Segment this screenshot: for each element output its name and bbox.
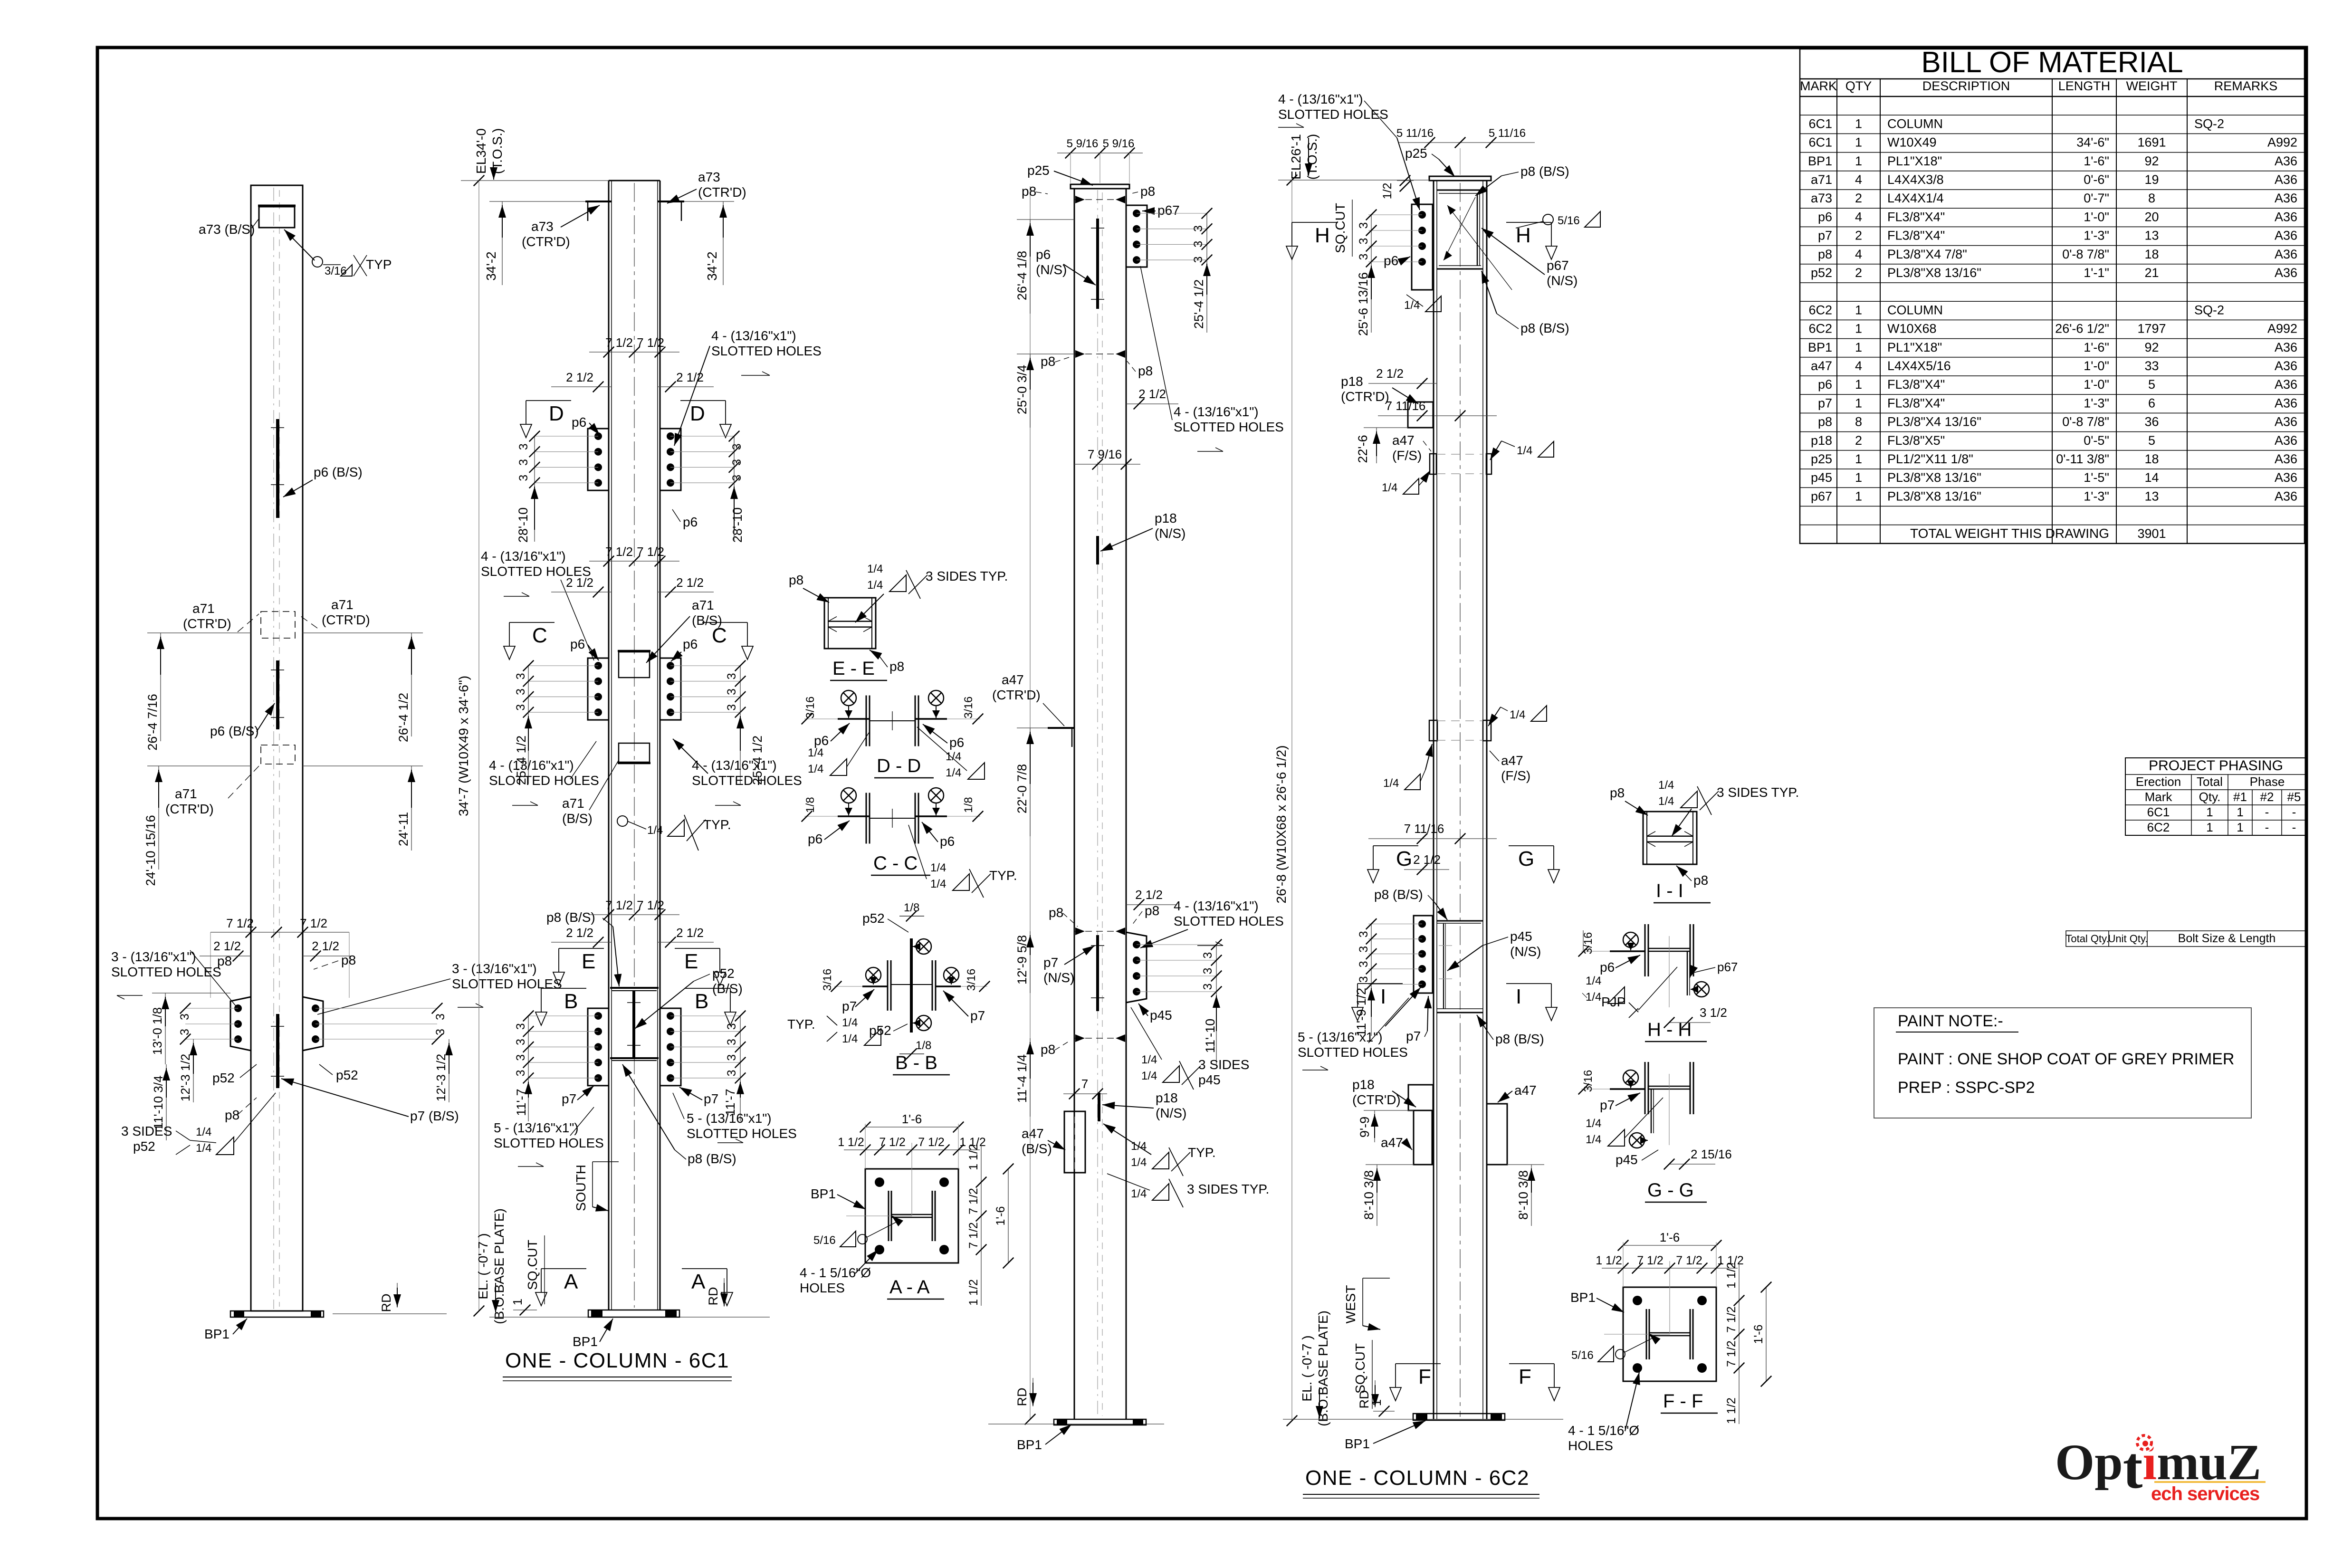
dim 26-4 7/16 bbox=[145, 633, 251, 751]
svg-text:3: 3 bbox=[1357, 254, 1370, 260]
svg-text:SLOTTED HOLES: SLOTTED HOLES bbox=[1174, 914, 1284, 928]
svg-text:11'-4 1/4: 11'-4 1/4 bbox=[1015, 1054, 1029, 1103]
svg-text:p8: p8 bbox=[1818, 247, 1832, 261]
svg-text:#5: #5 bbox=[2287, 790, 2301, 804]
svg-text:BILL OF MATERIAL: BILL OF MATERIAL bbox=[1921, 46, 2183, 79]
label BP1 col2 bbox=[573, 1319, 613, 1349]
svg-text:p8: p8 bbox=[889, 659, 904, 674]
svg-text:p8: p8 bbox=[1138, 363, 1153, 378]
cap plate p25 col4 bbox=[1429, 176, 1491, 181]
dim 8-10 3/8 col4 bbox=[1362, 1165, 1414, 1226]
svg-text:TYP.: TYP. bbox=[787, 1017, 815, 1032]
svg-text:SQ.CUT: SQ.CUT bbox=[1353, 1343, 1367, 1394]
svg-text:p25: p25 bbox=[1405, 146, 1427, 161]
label a47 col4 low bbox=[1381, 1135, 1412, 1150]
svg-text:1/4: 1/4 bbox=[1586, 975, 1601, 987]
svg-text:C - C: C - C bbox=[873, 853, 918, 874]
svg-text:1'-0": 1'-0" bbox=[2084, 359, 2109, 373]
svg-text:12'-3 1/2: 12'-3 1/2 bbox=[178, 1054, 192, 1101]
dims 3 3 3 right (D) bbox=[729, 431, 744, 488]
svg-text:SLOTTED HOLES: SLOTTED HOLES bbox=[687, 1126, 797, 1141]
svg-text:3: 3 bbox=[725, 688, 738, 695]
svg-text:6C1: 6C1 bbox=[2147, 805, 2170, 819]
base plate BP1 col3 bbox=[1054, 1419, 1146, 1425]
label p45 col3 bbox=[1138, 1004, 1172, 1023]
svg-text:26'-4 1/8: 26'-4 1/8 bbox=[1015, 251, 1029, 300]
svg-text:1/4: 1/4 bbox=[1658, 795, 1674, 808]
svg-text:PL1"X18": PL1"X18" bbox=[1887, 340, 1942, 354]
svg-text:1'-1": 1'-1" bbox=[2084, 266, 2109, 280]
svg-text:BP1: BP1 bbox=[1345, 1436, 1370, 1451]
label a73 (CTR`D) right bbox=[667, 170, 746, 203]
svg-text:1/4: 1/4 bbox=[1517, 444, 1532, 457]
svg-text:3 SIDES TYP.: 3 SIDES TYP. bbox=[1717, 785, 1799, 800]
svg-text:1/4: 1/4 bbox=[1131, 1156, 1147, 1169]
svg-text:12'-9 5/8: 12'-9 5/8 bbox=[1015, 935, 1029, 985]
label EL (-0-7) col4 bbox=[1300, 1310, 1330, 1426]
plate p6 (B/S) mid on column 6C1 bbox=[271, 660, 284, 729]
svg-text:Bolt Size & Length: Bolt Size & Length bbox=[2178, 932, 2276, 945]
plate a47 col4 low-left bbox=[1414, 1110, 1432, 1165]
svg-text:3 SIDES: 3 SIDES bbox=[1198, 1057, 1249, 1072]
svg-text:(CTR'D): (CTR'D) bbox=[522, 234, 570, 249]
label p8 (B/S) col4 mid bbox=[1482, 271, 1569, 335]
svg-text:6C2: 6C2 bbox=[2147, 820, 2170, 834]
section marker D left bbox=[520, 401, 571, 438]
label a71 (CTR`D) lower bbox=[165, 786, 214, 816]
dim 3 3 right col1 bbox=[434, 1013, 447, 1035]
section B-B bbox=[831, 938, 990, 1075]
svg-text:3 - (13/16"x1"): 3 - (13/16"x1") bbox=[452, 961, 537, 976]
svg-text:(N/S): (N/S) bbox=[1036, 262, 1067, 277]
label a71 (B/S) top bbox=[646, 598, 722, 663]
svg-text:3: 3 bbox=[1357, 238, 1370, 245]
label p8 left bbox=[217, 954, 232, 968]
svg-text:a47: a47 bbox=[1022, 1126, 1044, 1141]
svg-text:1/4: 1/4 bbox=[196, 1142, 211, 1155]
svg-text:2 1/2: 2 1/2 bbox=[213, 939, 241, 953]
overall dim line col4 bbox=[1287, 180, 1298, 1426]
svg-text:BP1: BP1 bbox=[1808, 340, 1832, 354]
section marker I right bbox=[1506, 984, 1557, 1021]
svg-text:1: 1 bbox=[2237, 820, 2243, 834]
svg-text:7 9/16: 7 9/16 bbox=[1088, 447, 1122, 461]
weld 1/4 3 SIDES TYP col3 bbox=[1107, 1174, 1269, 1207]
svg-text:A36: A36 bbox=[2275, 470, 2297, 485]
svg-text:1/4: 1/4 bbox=[946, 766, 961, 779]
svg-text:p45: p45 bbox=[1510, 929, 1532, 944]
svg-text:C: C bbox=[532, 624, 547, 647]
svg-text:a47: a47 bbox=[1392, 433, 1415, 448]
svg-text:QTY: QTY bbox=[1845, 79, 1872, 93]
svg-text:3: 3 bbox=[517, 459, 530, 466]
svg-text:COLUMN: COLUMN bbox=[1887, 303, 1943, 317]
label 4 slotted holes left lower bbox=[489, 741, 599, 805]
dim 22-6 col4 bbox=[1356, 428, 1408, 463]
label p8 (B/S) lower bbox=[622, 1064, 736, 1166]
svg-text:3: 3 bbox=[178, 1029, 191, 1035]
label BP1 col1 bbox=[204, 1319, 247, 1341]
svg-text:1'-6: 1'-6 bbox=[1660, 1230, 1680, 1244]
svg-text:34'-2: 34'-2 bbox=[705, 251, 719, 280]
plate p45 bolted col3 bbox=[1126, 932, 1147, 1003]
svg-text:5 9/16: 5 9/16 bbox=[1103, 137, 1135, 150]
svg-text:a73 (B/S): a73 (B/S) bbox=[199, 222, 255, 237]
svg-text:3 - (13/16"x1"): 3 - (13/16"x1") bbox=[111, 949, 196, 964]
svg-text:92: 92 bbox=[2144, 154, 2159, 168]
svg-text:G: G bbox=[1396, 847, 1412, 870]
svg-text:D: D bbox=[690, 402, 705, 425]
svg-text:p8: p8 bbox=[217, 954, 232, 968]
dim 3 3 left col1 bbox=[178, 1013, 191, 1035]
dims 3 3 3 right (C) bbox=[725, 660, 746, 718]
label a47 (B/S) col3 bbox=[1022, 1126, 1065, 1156]
section marker G left bbox=[1367, 846, 1418, 883]
hidden p8 line conn2 col3 bbox=[1074, 1034, 1126, 1042]
label p8 right col3 bbox=[1130, 184, 1155, 199]
svg-text:1/4: 1/4 bbox=[647, 824, 663, 837]
svg-text:RD: RD bbox=[706, 1287, 720, 1306]
dims 3x4 right (B) bbox=[725, 1011, 746, 1083]
svg-text:1/4: 1/4 bbox=[1141, 1070, 1157, 1082]
dim 2 1/2 col4 bbox=[1368, 366, 1437, 389]
section marker C right bbox=[702, 622, 753, 660]
dim 9-9 col4 bbox=[1358, 1110, 1414, 1142]
dim chain line col3 bbox=[1025, 186, 1036, 1425]
section marker G right bbox=[1509, 846, 1559, 883]
svg-text:0'-11 3/8": 0'-11 3/8" bbox=[2056, 452, 2109, 466]
svg-text:a47: a47 bbox=[1811, 359, 1832, 373]
svg-text:RD: RD bbox=[1357, 1390, 1371, 1409]
column 6C2 centerline bbox=[1097, 190, 1098, 1417]
svg-text:7 1/2: 7 1/2 bbox=[1725, 1306, 1738, 1333]
dim 7 1/2 7 1/2 col1 bbox=[210, 916, 349, 998]
svg-text:p18: p18 bbox=[1352, 1077, 1375, 1092]
svg-text:3: 3 bbox=[1357, 976, 1370, 983]
svg-text:p18: p18 bbox=[1156, 1090, 1178, 1105]
svg-text:p6 (B/S): p6 (B/S) bbox=[314, 465, 363, 479]
svg-text:p18: p18 bbox=[1155, 511, 1177, 526]
svg-text:a47: a47 bbox=[1501, 753, 1523, 768]
svg-text:2: 2 bbox=[1855, 229, 1862, 243]
svg-text:22'-6: 22'-6 bbox=[1356, 435, 1370, 463]
svg-text:p6: p6 bbox=[683, 637, 698, 651]
dim 3 1/2 H-H bbox=[1664, 1005, 1727, 1028]
section marker C left bbox=[504, 622, 555, 660]
svg-text:Mark: Mark bbox=[2145, 790, 2173, 804]
svg-text:a71: a71 bbox=[331, 597, 354, 612]
svg-text:3: 3 bbox=[1201, 952, 1214, 959]
svg-text:I: I bbox=[1516, 985, 1521, 1008]
dim 26-4 1/2 right bbox=[303, 633, 423, 742]
svg-text:B: B bbox=[695, 990, 708, 1013]
svg-text:1: 1 bbox=[1855, 154, 1862, 168]
label p8 (B/S) col4 low bbox=[1477, 1015, 1544, 1046]
svg-text:1'-6: 1'-6 bbox=[902, 1112, 922, 1126]
svg-text:24'-11: 24'-11 bbox=[396, 812, 411, 846]
plate p7 bolted right (B) bbox=[660, 1008, 681, 1086]
svg-text:3: 3 bbox=[725, 1039, 738, 1045]
svg-text:18: 18 bbox=[2144, 452, 2159, 466]
ground line col3 bbox=[988, 1424, 1164, 1425]
svg-text:34'-2: 34'-2 bbox=[484, 251, 498, 280]
svg-text:p6: p6 bbox=[1384, 253, 1398, 268]
svg-text:2 1/2: 2 1/2 bbox=[676, 575, 704, 590]
svg-text:D: D bbox=[549, 402, 564, 425]
svg-text:-: - bbox=[2292, 805, 2296, 819]
label SQ.CUT col4 top bbox=[1333, 200, 1352, 257]
svg-text:3: 3 bbox=[725, 704, 738, 711]
svg-text:1'-6: 1'-6 bbox=[994, 1206, 1007, 1226]
section E-E bbox=[824, 598, 887, 680]
weld 1/4 col4 mid-left bbox=[1383, 744, 1433, 790]
svg-text:5 9/16: 5 9/16 bbox=[1067, 137, 1099, 150]
label p6 D-D left bbox=[814, 723, 850, 748]
label p7 B-B right bbox=[943, 991, 985, 1023]
svg-text:19: 19 bbox=[2144, 172, 2159, 187]
svg-text:2 1/2: 2 1/2 bbox=[1138, 387, 1166, 401]
svg-text:6C1: 6C1 bbox=[1808, 135, 1832, 150]
svg-text:A - A: A - A bbox=[889, 1277, 930, 1298]
dim 7 col3 bbox=[1063, 1077, 1107, 1099]
svg-text:3: 3 bbox=[178, 1013, 191, 1020]
svg-text:3: 3 bbox=[1357, 931, 1370, 937]
label p25 col3 bbox=[1027, 163, 1093, 185]
TOS level line col4 bbox=[1278, 175, 1429, 186]
svg-text:12'-3 1/2: 12'-3 1/2 bbox=[434, 1054, 448, 1101]
dim 2.5 at D level bbox=[551, 370, 714, 392]
svg-text:TYP.: TYP. bbox=[703, 817, 731, 832]
svg-text:21: 21 bbox=[2144, 266, 2159, 280]
svg-text:-: - bbox=[2265, 820, 2269, 834]
label 4 slotted holes conn col3 bbox=[1140, 899, 1284, 948]
welds B-B bbox=[866, 939, 959, 1031]
svg-text:a73: a73 bbox=[698, 170, 720, 184]
dim 28-10 right bbox=[730, 483, 745, 543]
project phasing table bbox=[2125, 758, 2306, 835]
svg-text:HOLES: HOLES bbox=[1568, 1438, 1613, 1453]
svg-text:7: 7 bbox=[1081, 1077, 1088, 1091]
column 6C1 centerline bbox=[273, 188, 274, 1309]
svg-text:p7: p7 bbox=[970, 1008, 985, 1023]
plate p8 bolted left col1 bbox=[230, 997, 251, 1051]
dim 24-11 right bbox=[303, 766, 423, 851]
svg-text:Erection: Erection bbox=[2136, 774, 2181, 789]
svg-text:BP1: BP1 bbox=[811, 1186, 836, 1201]
svg-text:a73: a73 bbox=[1811, 191, 1832, 205]
label 3 slotted holes left bbox=[111, 949, 236, 1006]
bolt grid lines (D) bbox=[535, 436, 734, 483]
svg-text:H: H bbox=[1315, 224, 1330, 247]
svg-text:p6: p6 bbox=[1036, 247, 1051, 262]
svg-text:Unit Qty.: Unit Qty. bbox=[2108, 933, 2148, 945]
svg-text:1/4: 1/4 bbox=[946, 750, 961, 763]
label BP1 col4 bbox=[1345, 1421, 1425, 1451]
label SQ.CUT col4 low bbox=[1353, 1340, 1372, 1409]
svg-text:1'-3": 1'-3" bbox=[2084, 229, 2109, 243]
svg-text:1/4: 1/4 bbox=[930, 878, 946, 890]
svg-text:1/4: 1/4 bbox=[1382, 481, 1397, 494]
dim 1/8 B-B top bbox=[899, 901, 924, 921]
svg-text:(B/S): (B/S) bbox=[1022, 1141, 1052, 1156]
angle a73 right at col2 top bbox=[658, 201, 684, 221]
svg-text:1: 1 bbox=[1855, 322, 1862, 336]
svg-text:p45: p45 bbox=[1150, 1008, 1172, 1023]
label p52 right bbox=[319, 1064, 358, 1082]
svg-text:3/16: 3/16 bbox=[1582, 1070, 1595, 1092]
plate p6 bolted right (D) bbox=[660, 429, 681, 490]
svg-text:p52: p52 bbox=[862, 911, 885, 926]
svg-text:HOLES: HOLES bbox=[800, 1281, 845, 1295]
svg-text:28'-10: 28'-10 bbox=[516, 507, 530, 543]
label 4 slotted holes right (D) bbox=[674, 328, 822, 446]
svg-text:2 1/2: 2 1/2 bbox=[1376, 366, 1404, 381]
label a71 (B/S) lower bbox=[562, 760, 619, 826]
svg-text:PL3/8"X8 13/16": PL3/8"X8 13/16" bbox=[1887, 266, 1981, 280]
svg-text:A36: A36 bbox=[2275, 377, 2297, 392]
svg-text:1797: 1797 bbox=[2137, 322, 2166, 336]
dim 2 1/2 col3 bbox=[1126, 387, 1178, 409]
label p7 G-G bbox=[1600, 1093, 1640, 1112]
label p7 left bbox=[562, 1086, 594, 1106]
weld 1/4 3 SIDES p45 bbox=[1131, 1007, 1249, 1090]
svg-text:PJP: PJP bbox=[1601, 994, 1625, 1009]
svg-text:1/4: 1/4 bbox=[842, 1033, 858, 1045]
dim 11-4 1/4 col3 bbox=[1015, 1038, 1034, 1117]
plate a47 (B/S) col3 bbox=[1064, 1111, 1085, 1173]
svg-text:LENGTH: LENGTH bbox=[2058, 79, 2111, 93]
ground line col2 bbox=[489, 1317, 770, 1318]
plate p52 centre edge-view bbox=[627, 991, 641, 1058]
svg-text:1/4: 1/4 bbox=[1658, 779, 1674, 792]
column 6C2 centerline (web view) bbox=[1460, 183, 1461, 1417]
svg-text:W10X49: W10X49 bbox=[1887, 135, 1937, 150]
svg-text:1/4: 1/4 bbox=[867, 579, 883, 592]
svg-text:1: 1 bbox=[1855, 340, 1862, 354]
svg-text:36: 36 bbox=[2144, 415, 2159, 429]
svg-text:p67: p67 bbox=[1811, 489, 1832, 503]
dim 22-0 7/8 col3 bbox=[1015, 728, 1048, 836]
svg-text:E - E: E - E bbox=[832, 658, 875, 679]
svg-text:(CTR'D): (CTR'D) bbox=[1352, 1092, 1401, 1107]
svg-text:p8 (B/S): p8 (B/S) bbox=[1374, 887, 1423, 902]
label EL (-0-7) (B.O.BASE PLATE) bbox=[476, 1208, 507, 1324]
svg-text:DESCRIPTION: DESCRIPTION bbox=[1922, 79, 2010, 93]
svg-text:p25: p25 bbox=[1027, 163, 1050, 178]
svg-text:EL. ( -0'-7 ): EL. ( -0'-7 ) bbox=[476, 1233, 490, 1299]
label a47 (F/S) col4 mid bbox=[1490, 751, 1530, 783]
ground line col4 bbox=[1283, 1419, 1563, 1420]
svg-text:p7: p7 bbox=[1818, 229, 1832, 243]
svg-text:5 11/16: 5 11/16 bbox=[1396, 127, 1434, 140]
svg-text:F: F bbox=[1519, 1365, 1531, 1388]
svg-text:EL34'-0: EL34'-0 bbox=[474, 128, 488, 174]
svg-text:1/4: 1/4 bbox=[842, 1016, 858, 1029]
svg-text:1/4: 1/4 bbox=[1141, 1053, 1157, 1066]
svg-text:PL3/8"X8 13/16": PL3/8"X8 13/16" bbox=[1887, 470, 1981, 485]
svg-text:0'-8 7/8": 0'-8 7/8" bbox=[2062, 247, 2109, 261]
section marker A left bbox=[535, 1269, 586, 1306]
dim 2.5 at C level bbox=[551, 575, 714, 597]
box plates between flanges (G) col4 bbox=[1437, 921, 1483, 1013]
svg-text:p45: p45 bbox=[1616, 1152, 1638, 1167]
bill of material table bbox=[1800, 46, 2304, 544]
label 4 slotted holes col4 top bbox=[1278, 92, 1420, 210]
bolt lines p6 col4 bbox=[1357, 210, 1422, 268]
svg-text:5/16: 5/16 bbox=[1558, 214, 1580, 227]
welds G-G bbox=[1582, 1070, 1648, 1148]
dim 25-4 1/2 col3 bbox=[1192, 260, 1211, 333]
bolt grid lines (B) bbox=[528, 1016, 740, 1078]
label 3 slotted holes right bbox=[317, 961, 562, 1014]
svg-text:2: 2 bbox=[1855, 266, 1862, 280]
svg-text:p8 (B/S): p8 (B/S) bbox=[688, 1151, 736, 1166]
svg-text:A36: A36 bbox=[2275, 172, 2297, 187]
svg-text:(N/S): (N/S) bbox=[1547, 273, 1578, 288]
svg-text:3 SIDES: 3 SIDES bbox=[121, 1124, 172, 1138]
svg-text:1/4: 1/4 bbox=[1404, 299, 1420, 312]
svg-text:p67: p67 bbox=[1717, 960, 1738, 974]
section marker F right bbox=[1509, 1364, 1560, 1401]
svg-text:1: 1 bbox=[1855, 377, 1862, 392]
plate p6 bolted left (C) bbox=[588, 658, 609, 720]
svg-text:SLOTTED HOLES: SLOTTED HOLES bbox=[489, 773, 599, 788]
dim 25-6 13/16 col4 bbox=[1356, 262, 1375, 336]
svg-text:4 - (13/16"x1"): 4 - (13/16"x1") bbox=[1174, 899, 1259, 913]
svg-text:2: 2 bbox=[1855, 191, 1862, 205]
svg-text:(CTR'D): (CTR'D) bbox=[183, 616, 231, 631]
svg-text:PROJECT PHASING: PROJECT PHASING bbox=[2149, 758, 2283, 774]
svg-text:3 SIDES TYP.: 3 SIDES TYP. bbox=[926, 569, 1008, 583]
angle a47 mark col3 bbox=[1043, 703, 1075, 747]
svg-text:PAINT : ONE SHOP COAT OF GREY: PAINT : ONE SHOP COAT OF GREY PRIMER bbox=[1898, 1050, 2234, 1068]
weld 5/16 col4 bbox=[1516, 211, 1600, 228]
dim 11-7 left bbox=[514, 1078, 532, 1121]
label p45 (N/S) col4 bbox=[1447, 929, 1541, 971]
svg-text:p25: p25 bbox=[1811, 452, 1832, 466]
svg-text:D - D: D - D bbox=[877, 755, 921, 776]
svg-text:p8 (B/S): p8 (B/S) bbox=[1495, 1032, 1544, 1046]
svg-text:PL3/8"X4 13/16": PL3/8"X4 13/16" bbox=[1887, 415, 1981, 429]
label p8 (B/S) G col4 bbox=[1374, 887, 1447, 920]
svg-text:SLOTTED HOLES: SLOTTED HOLES bbox=[452, 976, 562, 991]
dim 24-10 15/16 bbox=[143, 766, 251, 886]
dim 11-10 3/4 bbox=[151, 1064, 170, 1140]
label p6 (N/S) col3 bbox=[1036, 247, 1096, 285]
label EL26-1 (T.O.S.) bbox=[1289, 134, 1319, 180]
weld 1/4 col4 mid-right bbox=[1488, 706, 1547, 726]
svg-text:(CTR'D): (CTR'D) bbox=[165, 802, 214, 816]
svg-text:A36: A36 bbox=[2275, 191, 2297, 205]
svg-text:3: 3 bbox=[514, 1039, 527, 1045]
svg-text:4: 4 bbox=[1855, 210, 1862, 224]
svg-text:6C1: 6C1 bbox=[1808, 116, 1832, 131]
section marker E left bbox=[553, 948, 604, 985]
svg-text:SQ-2: SQ-2 bbox=[2194, 116, 2224, 131]
svg-text:26'-6 1/2": 26'-6 1/2" bbox=[2055, 322, 2109, 336]
svg-text:BP1: BP1 bbox=[1017, 1437, 1042, 1452]
svg-text:FL3/8"X5": FL3/8"X5" bbox=[1887, 433, 1945, 448]
svg-text:p6: p6 bbox=[570, 637, 585, 651]
svg-text:p8: p8 bbox=[1041, 354, 1055, 369]
svg-text:p18: p18 bbox=[1341, 374, 1363, 389]
svg-text:-: - bbox=[2292, 820, 2296, 834]
svg-text:p6: p6 bbox=[949, 735, 964, 750]
bolt grid lines (C) bbox=[528, 666, 740, 712]
svg-text:4 - (13/16"x1"): 4 - (13/16"x1") bbox=[1174, 404, 1259, 419]
svg-text:7 1/2: 7 1/2 bbox=[605, 335, 633, 350]
svg-text:(N/S): (N/S) bbox=[1043, 970, 1074, 985]
